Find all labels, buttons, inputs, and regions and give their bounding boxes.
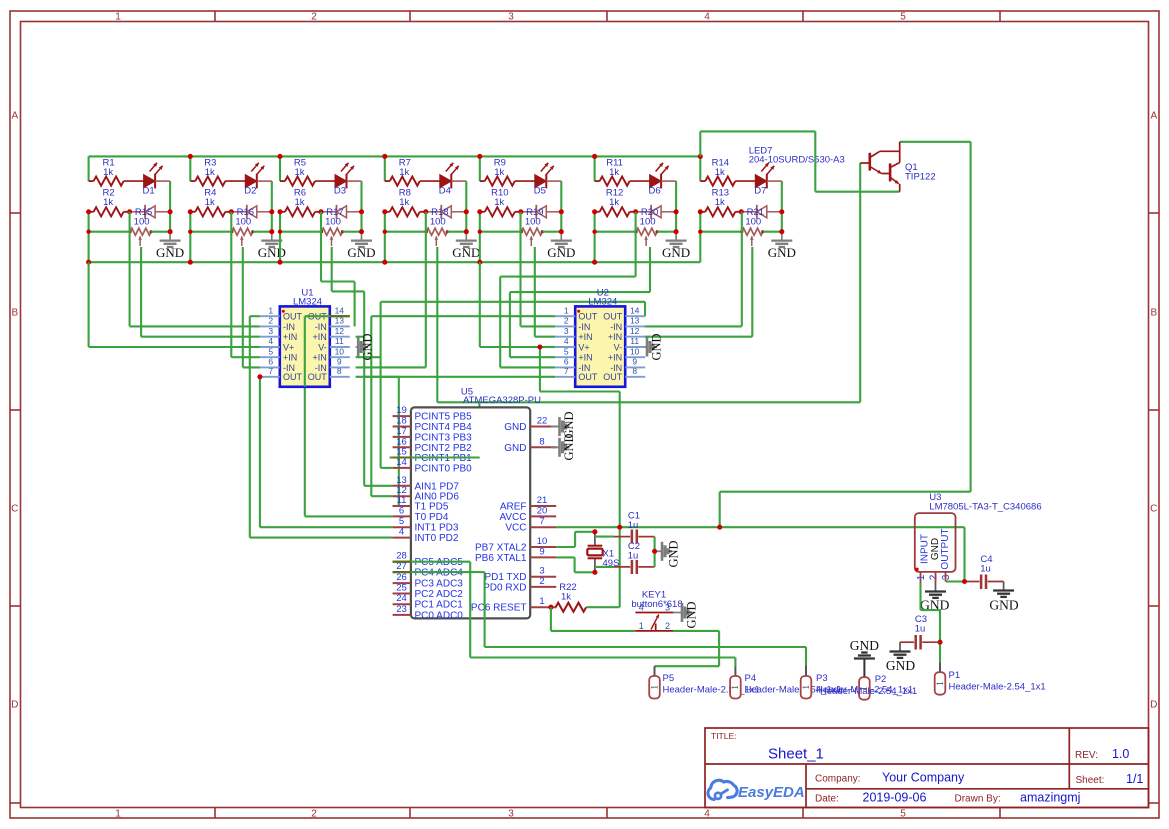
wire R12 right — [630, 211, 636, 213]
svg-text:PC3 ADC3: PC3 ADC3 — [415, 579, 464, 590]
wire U5 XTAL2 to X1 — [556, 546, 575, 548]
trimmer resistor R17 — [322, 228, 343, 235]
wire U3 input to P1 — [919, 583, 921, 610]
connector P3 Header-Male-2.54_1x1 — [805, 666, 807, 677]
wire R7 to D4 — [420, 180, 440, 182]
ground block1 — [169, 232, 171, 241]
wire to U1 pin6 — [243, 366, 260, 368]
svg-text:P3: P3 — [816, 673, 828, 684]
wire pot row left block7 — [700, 231, 742, 233]
svg-text:1: 1 — [916, 574, 927, 580]
svg-text:Header-Male-2.54_1x1: Header-Male-2.54_1x1 — [949, 682, 1046, 693]
wires block1-2 sensor outputs down to U1 — [129, 212, 131, 327]
junction dots block1 — [86, 260, 91, 265]
wire R9 to D5 — [515, 180, 535, 182]
svg-text:100: 100 — [525, 217, 541, 228]
resistor R12 1k — [595, 211, 600, 213]
svg-text:LM324: LM324 — [588, 297, 617, 308]
ground U2 pin11 — [644, 346, 646, 348]
svg-text:AVCC: AVCC — [499, 512, 526, 523]
svg-text:+IN: +IN — [608, 353, 622, 363]
svg-text:1k: 1k — [609, 167, 619, 178]
resistor R13 1k — [700, 211, 705, 213]
wire U5 PCINT1 row — [390, 456, 480, 458]
svg-text:P5: P5 — [663, 673, 675, 684]
svg-text:8: 8 — [337, 366, 342, 376]
svg-text:PB7 XTAL2: PB7 XTAL2 — [475, 543, 527, 554]
svg-text:P1: P1 — [949, 670, 961, 681]
svg-text:OUT: OUT — [283, 372, 303, 382]
LED D1 — [144, 175, 156, 188]
svg-text:1k: 1k — [103, 167, 113, 178]
wire R6 right — [315, 211, 321, 213]
svg-text:PCINT0 PB0: PCINT0 PB0 — [415, 463, 473, 474]
svg-text:INT1 PD3: INT1 PD3 — [415, 523, 459, 534]
trimmer resistor R18 — [426, 228, 447, 235]
svg-text:B: B — [1150, 308, 1157, 319]
svg-text:GND: GND — [562, 433, 576, 460]
microcontroller U5 ATMEGA328P-PU — [411, 407, 530, 618]
wire R22 to VCC riser — [586, 606, 620, 608]
wire D4 cathode — [451, 180, 466, 182]
svg-text:PD0 RXD: PD0 RXD — [483, 582, 526, 593]
svg-text:1: 1 — [649, 685, 659, 690]
wire to U1 pin3 — [141, 336, 260, 338]
svg-text:100: 100 — [430, 217, 446, 228]
photodiode D12 — [521, 211, 537, 213]
ground block7 — [781, 232, 783, 241]
LED D3 — [335, 175, 347, 188]
wire block7 wiper to U2 pin12 — [751, 247, 753, 337]
wire R4 right — [225, 211, 231, 213]
wire pot row left block4 — [385, 231, 427, 233]
svg-text:10: 10 — [335, 346, 345, 356]
svg-text:1k: 1k — [561, 592, 571, 603]
wire overlap U5 pin27 — [393, 571, 411, 573]
svg-text:7: 7 — [539, 516, 544, 527]
wire R8 right — [420, 211, 426, 213]
wire U5 PC5 to P4 — [393, 561, 471, 563]
resistor R6 1k — [280, 211, 285, 213]
svg-text:13: 13 — [630, 316, 640, 326]
svg-text:15: 15 — [396, 447, 407, 458]
junction dots block2 — [188, 154, 193, 159]
svg-text:GND: GND — [989, 598, 1018, 613]
ground block6 — [675, 232, 677, 241]
wire U1 pin8 to U5 T1 — [356, 376, 399, 378]
wire pot row left block1 — [89, 231, 131, 233]
svg-text:1k: 1k — [294, 197, 304, 208]
ground U3 pin2 — [935, 583, 937, 592]
resistor R4 1k — [190, 211, 195, 213]
svg-text:5: 5 — [900, 809, 906, 820]
svg-text:button6*618: button6*618 — [631, 599, 682, 610]
svg-text:-IN: -IN — [315, 322, 327, 332]
junction C3 dot — [937, 640, 942, 645]
svg-text:REV:: REV: — [1075, 750, 1098, 761]
wire Q1 collector rail — [900, 141, 971, 143]
capacitor C2 1u — [596, 566, 614, 568]
svg-text:1k: 1k — [399, 167, 409, 178]
svg-text:GND: GND — [156, 245, 184, 260]
capacitor C1 1u — [596, 536, 614, 538]
svg-text:PB6 XTAL1: PB6 XTAL1 — [475, 553, 527, 564]
svg-text:GND: GND — [685, 601, 699, 628]
svg-text:7: 7 — [268, 366, 273, 376]
svg-text:1: 1 — [935, 681, 945, 686]
svg-text:EasyEDA: EasyEDA — [738, 784, 805, 801]
svg-text:+IN: +IN — [578, 332, 592, 342]
wire R2 right — [124, 211, 130, 213]
svg-text:1: 1 — [268, 305, 273, 315]
svg-text:Sheet_1: Sheet_1 — [768, 746, 824, 763]
svg-text:OUT: OUT — [578, 372, 598, 382]
ground block2 — [271, 232, 273, 241]
svg-text:1u: 1u — [628, 551, 639, 562]
svg-text:2: 2 — [311, 12, 317, 23]
svg-text:TITLE:: TITLE: — [711, 731, 737, 741]
LED D4 — [440, 175, 452, 188]
wire top rail to Q1 emitter — [699, 131, 701, 156]
svg-text:GND: GND — [504, 443, 526, 454]
svg-text:4: 4 — [399, 527, 404, 538]
svg-text:A: A — [1150, 111, 1157, 122]
wire U5 PB1 interior — [390, 456, 480, 458]
svg-text:D3: D3 — [334, 186, 346, 197]
resistor R3 1k — [190, 180, 195, 182]
svg-text:Header-Male-2.54_1x1: Header-Male-2.54_1x1 — [820, 686, 917, 697]
EasyEDA logo — [708, 780, 737, 799]
svg-text:GND: GND — [850, 638, 879, 653]
connector P2 Header-Male-2.54_1x1 — [859, 677, 870, 700]
wire pot row right block4 — [447, 231, 466, 233]
svg-text:100: 100 — [134, 217, 150, 228]
svg-text:LM7805L-TA3-T_C340686: LM7805L-TA3-T_C340686 — [929, 502, 1041, 513]
wire block6 photodiode to U2 pin6 — [635, 212, 637, 277]
wire block6 wiper to U2 pin5 — [649, 247, 651, 292]
svg-text:D: D — [1150, 700, 1157, 711]
svg-text:V-: V- — [318, 342, 327, 352]
svg-text:1k: 1k — [494, 197, 504, 208]
svg-text:11: 11 — [335, 336, 344, 346]
resistor R1 1k — [89, 180, 94, 182]
wire pot row left block5 — [480, 231, 522, 233]
svg-text:1k: 1k — [399, 197, 409, 208]
wire pot row left block6 — [595, 231, 637, 233]
svg-text:2019-09-06: 2019-09-06 — [863, 791, 927, 805]
crystal X1 49S — [594, 532, 596, 546]
svg-text:OUT: OUT — [578, 312, 598, 322]
svg-text:6: 6 — [399, 505, 404, 516]
resistor R8 1k — [385, 211, 390, 213]
svg-text:14: 14 — [630, 305, 640, 315]
wire D2 cathode — [257, 180, 272, 182]
wire D7 cathode — [767, 180, 782, 182]
wire VCC net — [556, 526, 964, 528]
wire pot row right block1 — [151, 231, 170, 233]
svg-text:B: B — [11, 308, 18, 319]
svg-text:5: 5 — [900, 12, 906, 23]
wire U2 pin4 to VCC — [540, 346, 555, 348]
connector P1 Header-Male-2.54_1x1 — [939, 662, 941, 672]
svg-text:13: 13 — [396, 475, 407, 486]
svg-text:100: 100 — [745, 217, 761, 228]
svg-text:3: 3 — [941, 574, 952, 580]
svg-text:GND: GND — [452, 245, 480, 260]
svg-text:D7: D7 — [754, 186, 766, 197]
resistor R7 1k — [385, 180, 390, 182]
ground block3 — [361, 232, 363, 241]
wire overlap U1 pin14 — [330, 315, 350, 317]
wire U2 pin1 to U5 AIN0 — [371, 315, 555, 317]
ground U1 pin11 — [356, 346, 358, 348]
trimmer resistor R20 — [636, 228, 657, 235]
svg-text:20: 20 — [537, 505, 548, 516]
wire U1 pin14 to U5 T0 — [304, 387, 306, 517]
wire block3 — [279, 156, 281, 181]
junction dots block7 — [698, 154, 703, 159]
ground KEY1 pin3 — [673, 612, 681, 614]
wire pot row left block3 — [280, 231, 322, 233]
svg-text:amazingmj: amazingmj — [1020, 791, 1080, 805]
svg-text:1k: 1k — [103, 197, 113, 208]
capacitor C3 1u — [900, 641, 914, 643]
trimmer resistor R16 — [232, 228, 253, 235]
trimmer resistor R15 — [130, 228, 151, 235]
voltage regulator U3 LM7805L — [915, 513, 956, 572]
svg-text:2: 2 — [665, 621, 670, 631]
photodiode D11 — [426, 211, 442, 213]
wire pot row right block3 — [343, 231, 362, 233]
svg-text:10: 10 — [537, 536, 548, 547]
junction dots block5 — [477, 154, 482, 159]
svg-text:VCC: VCC — [505, 523, 526, 534]
LED D2 — [245, 175, 256, 188]
ground C4 — [1003, 582, 1005, 591]
svg-text:2: 2 — [311, 809, 317, 820]
wire D1 cathode — [155, 180, 170, 182]
svg-text:4: 4 — [704, 12, 710, 23]
svg-text:OUT: OUT — [603, 312, 623, 322]
svg-text:12: 12 — [335, 326, 345, 336]
svg-text:2: 2 — [268, 316, 273, 326]
wire rail to U2 pin4 — [479, 262, 481, 347]
svg-text:1: 1 — [730, 685, 740, 690]
svg-text:5: 5 — [564, 346, 569, 356]
wire block7 — [699, 156, 701, 181]
svg-text:100: 100 — [235, 217, 251, 228]
svg-text:3: 3 — [508, 12, 514, 23]
ground C1 C2 — [655, 550, 662, 552]
svg-text:1: 1 — [115, 809, 121, 820]
svg-text:GND: GND — [886, 658, 915, 673]
svg-text:100: 100 — [640, 217, 656, 228]
wire block2 — [189, 156, 191, 181]
wire block3 wiper to U5 AIN1 — [331, 247, 333, 291]
svg-text:100: 100 — [325, 217, 341, 228]
wire R5 to D3 — [315, 180, 335, 182]
svg-text:1k: 1k — [294, 167, 304, 178]
photodiode D9 — [231, 211, 247, 213]
svg-text:1k: 1k — [715, 167, 725, 178]
bottom rail wire — [89, 261, 701, 263]
resistor R10 1k — [480, 211, 485, 213]
svg-text:PCINT5 PB5: PCINT5 PB5 — [415, 412, 473, 423]
svg-text:25: 25 — [396, 583, 407, 594]
wire U1 pin14 interior — [305, 315, 350, 317]
svg-text:V+: V+ — [578, 342, 589, 352]
svg-text:V+: V+ — [283, 342, 294, 352]
svg-text:3: 3 — [564, 326, 569, 336]
svg-text:17: 17 — [396, 426, 407, 437]
svg-text:D1: D1 — [143, 186, 155, 197]
svg-text:-IN: -IN — [578, 322, 590, 332]
LED D5 — [535, 175, 547, 188]
svg-text:+IN: +IN — [313, 332, 327, 342]
trimmer resistor R19 — [521, 228, 542, 235]
wire pot row left block2 — [190, 231, 232, 233]
svg-text:2: 2 — [539, 576, 544, 587]
wire net to U5 PCINT0 — [380, 357, 382, 468]
svg-text:1k: 1k — [205, 167, 215, 178]
wire to U1 pin5 — [231, 356, 260, 358]
resistor R9 1k — [480, 180, 485, 182]
wire PB1 riser corner — [478, 402, 480, 457]
svg-text:8: 8 — [539, 436, 544, 447]
wire U1 pin7 to U5 INT1 — [259, 377, 261, 527]
wire block5 — [479, 156, 481, 181]
wire R1 to D1 — [124, 180, 144, 182]
svg-text:LM324: LM324 — [293, 297, 322, 308]
svg-text:2: 2 — [929, 574, 940, 580]
svg-text:PC2 ADC2: PC2 ADC2 — [415, 589, 464, 600]
junction X1 dots — [592, 529, 597, 534]
resistor R11 1k — [595, 180, 600, 182]
svg-text:1u: 1u — [628, 520, 639, 531]
wire U1 pin1 to U5 INT0 — [250, 315, 260, 317]
svg-text:22: 22 — [537, 416, 548, 427]
svg-text:-IN: -IN — [610, 322, 622, 332]
svg-text:1.0: 1.0 — [1112, 747, 1129, 761]
junction dots block3 — [277, 154, 282, 159]
svg-text:P2: P2 — [875, 674, 887, 685]
svg-text:D2: D2 — [244, 186, 256, 197]
svg-text:21: 21 — [537, 495, 548, 506]
svg-text:1: 1 — [115, 12, 121, 23]
svg-text:9: 9 — [539, 546, 544, 557]
svg-text:4: 4 — [704, 809, 710, 820]
wire block5 photodiode to U2 pin2 — [519, 212, 521, 327]
svg-text:18: 18 — [396, 416, 407, 427]
svg-text:14: 14 — [335, 305, 345, 315]
wire D6 cathode — [661, 180, 676, 182]
photodiode D8 — [130, 211, 146, 213]
resistor R2 1k — [89, 211, 94, 213]
svg-text:C: C — [1150, 504, 1157, 515]
svg-text:1k: 1k — [609, 197, 619, 208]
svg-text:19: 19 — [396, 405, 407, 416]
wire block4 photodiode to U1 pin9 — [425, 212, 427, 368]
LED D6 — [650, 175, 662, 188]
wire block6 — [594, 156, 596, 181]
svg-text:1: 1 — [539, 596, 544, 607]
svg-text:+IN: +IN — [283, 353, 297, 363]
svg-text:+IN: +IN — [283, 332, 297, 342]
wire R13 right — [735, 211, 741, 213]
wire R10 right — [515, 211, 521, 213]
svg-text:2: 2 — [564, 316, 569, 326]
wire pot row right block2 — [253, 231, 272, 233]
svg-text:Drawn By:: Drawn By: — [955, 794, 1001, 805]
svg-text:Company:: Company: — [815, 774, 861, 785]
svg-text:TIP122: TIP122 — [905, 172, 936, 183]
svg-text:GND: GND — [667, 540, 681, 567]
wire R3 to D2 — [225, 180, 245, 182]
svg-text:GND: GND — [650, 333, 664, 360]
svg-text:GND: GND — [258, 245, 286, 260]
wire overlap U5 pin15 — [393, 456, 411, 458]
wire R14 to D7 — [735, 180, 755, 182]
svg-text:7: 7 — [564, 366, 569, 376]
wire U2 pin7 feed — [363, 376, 555, 378]
resistor R14 1k — [700, 180, 705, 182]
ground block5 — [560, 232, 562, 241]
connector P5 Header-Male-2.54_1x1 — [654, 666, 656, 676]
transistor Q1 TIP122 — [860, 162, 870, 164]
junction dots block6 — [592, 154, 597, 159]
svg-text:GND: GND — [547, 245, 575, 260]
wire C1 C2 right join — [654, 537, 656, 567]
svg-text:GND: GND — [662, 245, 690, 260]
svg-text:204-10SURD/S530-A3: 204-10SURD/S530-A3 — [749, 155, 845, 166]
svg-text:GND: GND — [347, 245, 375, 260]
wire block7 photodiode to U2 pin13 — [741, 212, 743, 327]
svg-text:1k: 1k — [715, 197, 725, 208]
svg-text:10: 10 — [630, 346, 640, 356]
svg-text:Sheet:: Sheet: — [1076, 775, 1105, 786]
svg-text:PC6 RESET: PC6 RESET — [471, 603, 527, 614]
svg-text:1/1: 1/1 — [1126, 772, 1143, 786]
svg-text:PC1 ADC1: PC1 ADC1 — [415, 600, 464, 611]
wire block3 photodiode to U1 pin13 — [320, 212, 322, 282]
junction C4 dot — [962, 579, 967, 584]
svg-text:+IN: +IN — [608, 332, 622, 342]
ground U5 pin22 — [551, 426, 560, 428]
wire U1 pin10 to U2 pin14 net — [356, 356, 381, 358]
wire U1 pin12 stub — [356, 336, 365, 338]
ground C3 — [899, 642, 901, 651]
svg-text:INT0 PD2: INT0 PD2 — [415, 533, 459, 544]
svg-text:1: 1 — [801, 685, 811, 690]
wire U5 XTAL1 to X1 — [556, 556, 574, 558]
photodiode D14 — [741, 211, 757, 213]
svg-text:+IN: +IN — [578, 353, 592, 363]
svg-text:OUT: OUT — [283, 312, 303, 322]
svg-text:28: 28 — [396, 551, 407, 562]
wire D3 cathode — [347, 180, 362, 182]
svg-text:AREF: AREF — [500, 502, 527, 513]
wire KEY1 pin2 to P5 — [673, 630, 719, 632]
svg-text:D6: D6 — [649, 186, 661, 197]
wire to U1 pin2 — [130, 325, 260, 327]
svg-text:1: 1 — [564, 305, 569, 315]
svg-text:Your Company: Your Company — [882, 771, 965, 785]
svg-text:PC0 ADC0: PC0 ADC0 — [415, 610, 464, 621]
capacitor C4 1u — [965, 581, 980, 583]
svg-text:D5: D5 — [534, 186, 546, 197]
svg-text:OUT: OUT — [308, 372, 328, 382]
svg-text:5: 5 — [399, 516, 404, 527]
